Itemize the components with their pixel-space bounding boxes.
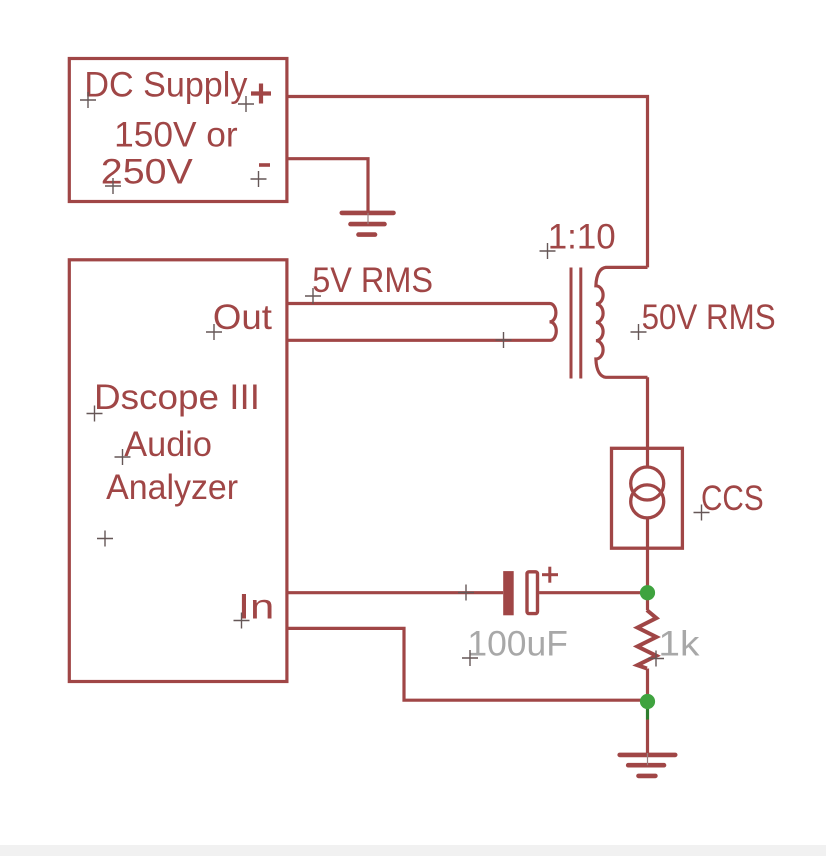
wire + from DC supply to transformer top — [286, 97, 648, 268]
cross part origin analyzer — [97, 531, 113, 547]
svg-text:DC Supply: DC Supply — [84, 66, 247, 105]
DC supply + terminal — [251, 84, 271, 104]
CCS box — [612, 448, 683, 548]
transformer secondary winding with wires — [596, 267, 648, 377]
svg-text:5V RMS: 5V RMS — [312, 261, 433, 300]
wire capacitor to node A — [539, 591, 647, 594]
wire CCS top stub — [646, 448, 649, 466]
node B junction dot — [640, 694, 655, 709]
capacitor C 100uF positive plate (hollow) — [527, 572, 538, 614]
transformer core line 2 — [579, 268, 582, 379]
svg-text:1k: 1k — [658, 624, 700, 663]
svg-text:Analyzer: Analyzer — [106, 468, 238, 507]
svg-text:CCS: CCS — [701, 479, 764, 518]
capacitor C 100uF negative plate (filled) — [503, 571, 514, 615]
resistor R zigzag 1k — [637, 610, 656, 668]
cross Out origin — [206, 324, 222, 340]
svg-text:150V or: 150V or — [114, 115, 238, 154]
CCS circle top — [631, 467, 664, 500]
svg-text:50V RMS: 50V RMS — [642, 298, 776, 337]
origin cross markers — [80, 92, 710, 667]
cross 1:10 origin — [540, 243, 556, 259]
cross 5V RMS origin — [305, 288, 321, 304]
bottom window strip — [0, 845, 826, 856]
cross In origin — [234, 613, 250, 629]
ground symbol at bottom — [620, 755, 676, 776]
capacitor plus mark — [542, 567, 558, 583]
cross CCS origin — [694, 505, 710, 521]
cross on Out lower wire — [496, 332, 512, 348]
transformer primary winding with Out wires — [287, 304, 556, 341]
node A junction dot — [640, 585, 655, 600]
cross Audio origin — [115, 449, 131, 465]
wire - from DC supply to ground — [286, 159, 368, 212]
Dscope analyzer box — [69, 260, 287, 682]
ground symbol near DC supply — [342, 213, 394, 235]
wire node B to ground — [646, 720, 649, 754]
wire CCS bottom to node A — [646, 519, 649, 611]
cross Dscope origin — [87, 406, 103, 422]
cross plus terminal origin — [238, 96, 254, 112]
cross 1k origin — [648, 651, 664, 667]
cross minus terminal origin — [251, 171, 267, 187]
wire In lower to node B — [287, 628, 648, 700]
cross 100uF origin — [462, 650, 478, 666]
DC supply - terminal — [259, 163, 270, 167]
svg-text:1:10: 1:10 — [548, 217, 616, 256]
cross 250V origin — [105, 178, 121, 194]
green net stub below node B — [646, 702, 649, 720]
cross on In wire — [458, 585, 474, 601]
svg-text:Dscope III: Dscope III — [94, 378, 260, 417]
wire resistor to node B — [646, 669, 649, 702]
svg-text:100uF: 100uF — [467, 624, 568, 663]
cross DC Supply origin — [80, 92, 96, 108]
svg-text:Audio: Audio — [124, 425, 212, 464]
wire secondary bottom to CCS — [646, 377, 649, 449]
cross 50V RMS origin — [631, 324, 647, 340]
wire In upper to capacitor — [287, 591, 503, 594]
CCS circle bottom — [631, 485, 664, 518]
transformer core line 1 — [570, 268, 573, 379]
DC supply box — [69, 59, 287, 202]
